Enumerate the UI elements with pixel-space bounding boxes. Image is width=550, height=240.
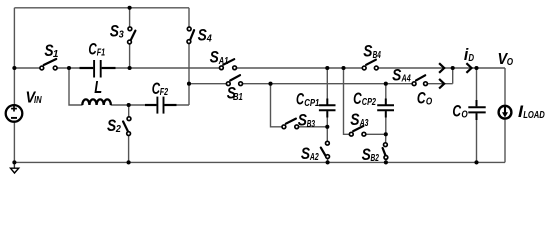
capacitor CCP1 xyxy=(319,99,336,118)
arrow on rail M into output node xyxy=(439,63,444,73)
wire bottom ground rail xyxy=(14,161,505,163)
inductor L xyxy=(82,99,111,105)
svg-text:A1: A1 xyxy=(218,55,228,67)
svg-text:LOAD: LOAD xyxy=(523,109,545,121)
svg-text:A4: A4 xyxy=(401,72,411,84)
svg-text:S: S xyxy=(392,65,402,84)
junction rail M / CCP1 xyxy=(325,66,329,70)
wire rail B from SB1 to SA4 xyxy=(241,83,415,85)
wire S3 branch upper stub xyxy=(129,8,131,27)
wire S4 branch down to CF2 node crossing rail M xyxy=(188,44,190,105)
wire CCP1 top stem from rail M xyxy=(326,68,328,104)
svg-text:O: O xyxy=(507,56,513,68)
switch SA4 xyxy=(412,75,427,85)
wire SA2 upper stub xyxy=(326,127,328,141)
svg-text:F1: F1 xyxy=(97,47,106,59)
svg-text:O: O xyxy=(461,108,467,120)
wire rail M from SB4 to output corner xyxy=(377,67,506,69)
svg-text:F2: F2 xyxy=(160,86,168,98)
junction rail B / CCP2 xyxy=(384,82,388,86)
svg-text:S: S xyxy=(350,110,360,129)
switch S4 xyxy=(187,27,194,43)
svg-text:C: C xyxy=(452,102,461,121)
wire rail M from CF1 right plate to SA1 xyxy=(101,67,221,69)
switch SA3 xyxy=(349,126,365,136)
wire rail M from SA1 to SB4 xyxy=(235,67,364,69)
wire VIN bottom to ground rail xyxy=(13,122,15,162)
wire J3 to CF2 left plate xyxy=(129,104,157,106)
switch SA2 xyxy=(321,141,330,158)
svg-text:C: C xyxy=(353,89,362,108)
wire rail B from SA4 to corner xyxy=(426,83,453,85)
switch S2 xyxy=(123,117,131,136)
wire S3 branch lower stub xyxy=(129,44,131,68)
wire SB2 lower stub xyxy=(385,159,387,162)
svg-text:D: D xyxy=(468,52,474,64)
junction VIN / rail M xyxy=(12,66,16,70)
wire left vertical from top rail to VIN xyxy=(13,8,15,105)
wire CO bottom stem xyxy=(476,113,478,162)
svg-text:3: 3 xyxy=(119,28,124,40)
wire rail M from S1 to CF1 left plate xyxy=(57,67,94,69)
wire CCP1 bottom stem xyxy=(326,111,328,127)
junction top rail / S3 xyxy=(128,6,132,10)
switch S3 xyxy=(128,27,136,44)
svg-text:B4: B4 xyxy=(373,49,381,61)
junction CCP2 bottom / SA3 / SB2 xyxy=(384,132,388,136)
wire top rail xyxy=(14,7,189,9)
wire S2 branch lower stub xyxy=(128,136,130,163)
junction CCP1 bottom / SB3 / SA2 xyxy=(325,125,329,129)
svg-text:O: O xyxy=(426,96,432,108)
wire S4 branch upper stub xyxy=(188,8,190,27)
junction ground rail / S2 xyxy=(127,160,131,164)
svg-text:CP1: CP1 xyxy=(304,97,319,109)
capacitor CF1 xyxy=(80,60,116,78)
svg-text:1: 1 xyxy=(53,49,59,60)
junction ground rail / SB2 xyxy=(384,160,388,164)
junction rail B / SB3 branch xyxy=(268,82,272,86)
svg-text:B1: B1 xyxy=(233,91,243,103)
wire SA3 branch vertical from rail M xyxy=(344,68,350,134)
svg-text:IN: IN xyxy=(34,94,42,106)
junction rail M / rail B merge xyxy=(451,66,455,70)
wire CO top stem xyxy=(476,68,478,106)
wire rail M from VIN node to S1 xyxy=(14,67,40,69)
svg-text:2: 2 xyxy=(115,123,121,135)
wire rail B from S4 node to SB1 xyxy=(189,83,229,85)
wire CCP2 bottom stem xyxy=(385,111,387,134)
wire SA2 lower stub xyxy=(327,158,329,162)
junction J3 L / S2 xyxy=(127,103,131,107)
wire SB2 upper stub xyxy=(385,134,387,142)
svg-text:CP2: CP2 xyxy=(362,96,376,108)
wire SA3 to CCP2 bottom node xyxy=(366,133,386,135)
svg-text:A3: A3 xyxy=(359,117,369,129)
switch SB1 xyxy=(226,75,242,85)
wire ILOAD bottom to ground rail xyxy=(504,119,506,162)
voltage source VIN xyxy=(6,105,23,122)
switch SB4 xyxy=(362,60,378,70)
svg-text:B2: B2 xyxy=(371,152,379,164)
switch SB2 xyxy=(383,143,388,160)
wire L coil to J3 xyxy=(111,104,129,106)
capacitor CO xyxy=(468,100,485,120)
wire rail B corner up to rail M junction xyxy=(452,68,454,84)
arrow on rail B into output node xyxy=(439,79,444,89)
svg-text:L: L xyxy=(94,77,102,97)
junction J2 rail M / S3 xyxy=(128,66,132,70)
wire SB3 branch vertical from rail B xyxy=(271,84,283,127)
arrow iD on output wire xyxy=(466,63,471,73)
svg-text:C: C xyxy=(417,89,426,108)
junction ground rail / CO xyxy=(474,160,478,164)
junction output / CO xyxy=(474,66,478,70)
wire CF2 right plate to S4 vertical xyxy=(164,104,189,106)
wire J1 down to L branch xyxy=(69,68,83,105)
svg-text:A2: A2 xyxy=(309,151,319,163)
svg-text:C: C xyxy=(296,90,304,109)
svg-text:S: S xyxy=(363,42,373,61)
junction rail M / SA3 branch xyxy=(341,66,345,70)
ground xyxy=(11,162,19,173)
switch S1 xyxy=(40,59,57,70)
wire output corner down to ILOAD top xyxy=(504,68,506,106)
junction J1 rail M / L branch xyxy=(67,66,71,70)
svg-text:4: 4 xyxy=(206,32,212,44)
current source ILOAD xyxy=(499,106,512,119)
wire SB3 to CCP1 bottom node xyxy=(299,126,327,128)
capacitor CF2 xyxy=(145,97,177,114)
svg-text:B3: B3 xyxy=(307,118,315,130)
wire S2 branch upper stub xyxy=(128,105,130,117)
switch SB3 xyxy=(282,119,299,129)
switch SA1 xyxy=(220,59,237,70)
junction ground rail / SA2 xyxy=(326,160,330,164)
junction rail B / S4 xyxy=(187,82,191,86)
junction ground rail / VIN xyxy=(12,160,16,164)
wire CCP2 top stem from rail B xyxy=(385,84,387,105)
capacitor CCP2 xyxy=(377,99,394,118)
